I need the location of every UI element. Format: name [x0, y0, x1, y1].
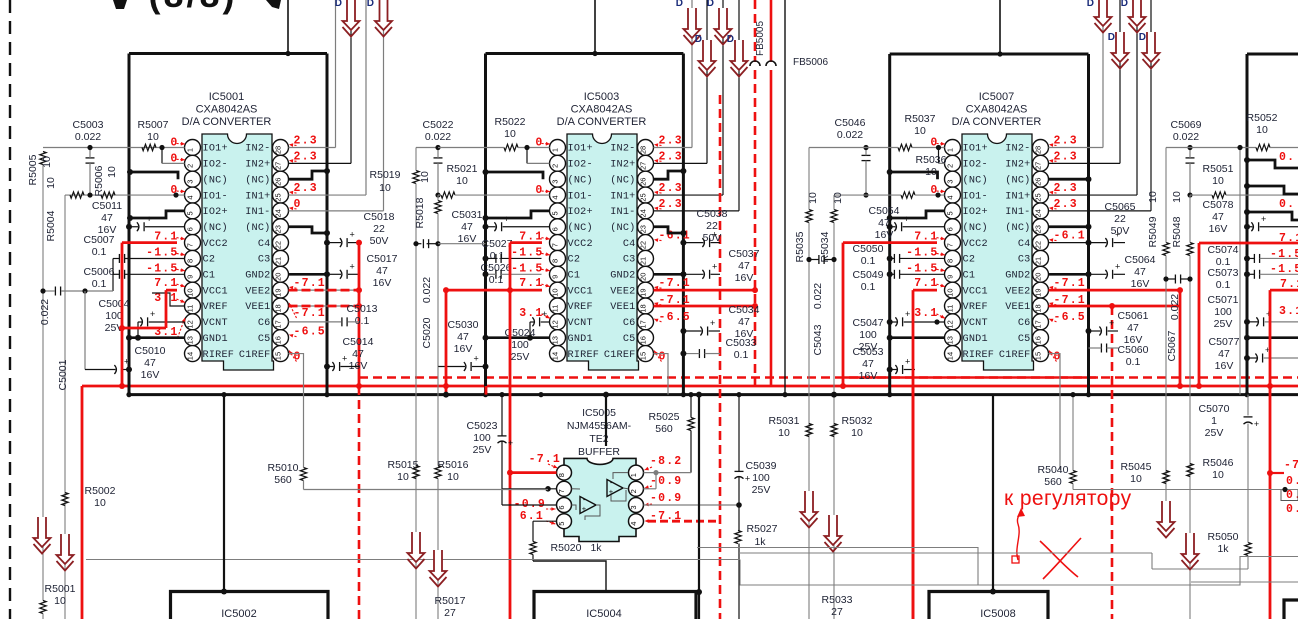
IC5009 shield box top: [1247, 53, 1298, 56]
wire net: [415, 244, 417, 619]
svg-text:NJM4556AM-: NJM4556AM-: [567, 420, 632, 432]
red line FB: [770, 0, 773, 62]
svg-text:C5023: C5023: [467, 420, 498, 432]
svg-text:(NC): (NC): [203, 174, 228, 186]
svg-text:25: 25: [274, 193, 283, 201]
svg-text:C6: C6: [1018, 318, 1031, 329]
svg-text:0.: 0.: [1286, 475, 1298, 488]
svg-text:IO1-: IO1-: [568, 191, 593, 202]
svg-text:17: 17: [1034, 320, 1043, 328]
svg-text:10: 10: [1212, 175, 1224, 187]
IC5007 pin 18: [1033, 298, 1049, 314]
red wire vertical: [445, 290, 448, 394]
off-page arrow: [1158, 501, 1175, 531]
svg-text:-6.5: -6.5: [294, 326, 326, 339]
svg-text:C3: C3: [258, 255, 271, 266]
svg-text:C5064: C5064: [1125, 254, 1156, 266]
svg-text:D: D: [1121, 0, 1128, 9]
svg-text:(NC): (NC): [1005, 174, 1030, 186]
off-page arrow: [1182, 533, 1199, 563]
svg-text:47: 47: [1127, 322, 1139, 334]
svg-text:IN1-: IN1-: [610, 207, 635, 218]
svg-text:R5025: R5025: [649, 411, 680, 423]
wire pin20 GND2 IC5007: [1049, 273, 1089, 276]
svg-text:13: 13: [186, 336, 195, 344]
wire: [1239, 148, 1241, 395]
IC5001 pin 6: [185, 219, 201, 235]
svg-text:100: 100: [473, 432, 491, 444]
svg-text:10: 10: [186, 288, 195, 296]
svg-text:0: 0: [294, 351, 302, 364]
svg-text:IO1+: IO1+: [203, 144, 228, 155]
IC5003 pin 22: [638, 235, 654, 251]
svg-text:28: 28: [639, 146, 648, 154]
svg-text:C5011: C5011: [92, 200, 122, 212]
svg-text:FB5006: FB5006: [793, 57, 828, 68]
wire 4th IC NC steps: [1247, 186, 1298, 194]
red wire 4th IC VCC1: [1269, 290, 1272, 619]
off-page arrow: [408, 532, 425, 562]
svg-text:47: 47: [1134, 266, 1146, 278]
IC IC5008 box: [929, 592, 1048, 619]
wire: [416, 147, 438, 149]
IC5007 shield box left: [888, 54, 891, 395]
svg-text:(NC): (NC): [963, 174, 988, 186]
IC5007 pin 13: [945, 330, 961, 346]
IC5003 pin 3: [550, 171, 566, 187]
svg-text:22: 22: [373, 223, 385, 235]
svg-text:-1.5: -1.5: [1270, 263, 1298, 276]
svg-text:16V: 16V: [1209, 223, 1228, 235]
svg-text:C5054: C5054: [869, 205, 900, 217]
svg-text:R5007: R5007: [138, 119, 169, 131]
svg-text:IO2+: IO2+: [963, 207, 988, 218]
wire: [722, 0, 724, 195]
IC5005 pin 7: [557, 481, 572, 496]
IC5003 pin 11: [550, 298, 566, 314]
junction: [1187, 145, 1192, 150]
svg-text:+: +: [342, 354, 347, 364]
wire pin13 GND1: [129, 336, 185, 339]
off-page arrow D: [343, 0, 360, 30]
title bracket right: [266, 0, 281, 9]
svg-text:16V: 16V: [373, 277, 392, 289]
svg-text:21: 21: [1034, 257, 1043, 265]
svg-text:47: 47: [1212, 211, 1224, 223]
junction: [87, 192, 92, 197]
svg-text:D/A CONVERTER: D/A CONVERTER: [182, 116, 272, 128]
svg-text:R5032: R5032: [842, 415, 873, 427]
IC5007 pin 27: [1033, 155, 1049, 171]
svg-text:100: 100: [105, 310, 123, 322]
wire: [365, 0, 367, 195]
junction: [87, 145, 92, 150]
resistor R5034: [831, 210, 837, 223]
svg-text:10: 10: [551, 288, 560, 296]
svg-text:0.1: 0.1: [1216, 279, 1231, 291]
svg-text:IC5003: IC5003: [584, 91, 619, 103]
wire pin26 NC IC5003: [654, 171, 684, 179]
svg-text:100: 100: [859, 329, 877, 341]
svg-text:25: 25: [1034, 193, 1043, 201]
svg-text:0.022: 0.022: [812, 283, 824, 309]
svg-text:47: 47: [738, 316, 750, 328]
IC5001 pin 8: [185, 250, 201, 266]
wire: [691, 0, 693, 148]
svg-text:C5037: C5037: [729, 248, 760, 260]
svg-text:VCC1: VCC1: [963, 286, 988, 297]
svg-text:16V: 16V: [1131, 278, 1150, 290]
junction: [40, 288, 45, 293]
svg-text:CXA8042AS: CXA8042AS: [571, 104, 633, 116]
svg-text:47: 47: [376, 265, 388, 277]
svg-text:-1.5: -1.5: [146, 262, 178, 275]
IC5007 pin 10: [945, 282, 961, 298]
svg-text:-1.5: -1.5: [906, 262, 938, 275]
svg-text:25V: 25V: [1214, 318, 1233, 330]
svg-text:(NC): (NC): [610, 222, 635, 234]
svg-text:R5048: R5048: [1171, 216, 1183, 247]
svg-text:IO1-: IO1-: [963, 191, 988, 202]
IC5001 pin 19: [273, 282, 289, 298]
svg-text:C4: C4: [623, 239, 636, 250]
svg-text:2.3: 2.3: [659, 198, 683, 211]
svg-text:7.1: 7.1: [154, 277, 178, 290]
wire net: [437, 244, 439, 367]
IC5007 pin 9: [945, 266, 961, 282]
svg-text:R5045: R5045: [1121, 461, 1152, 473]
IC5003 pin 12: [550, 314, 566, 330]
svg-text:21: 21: [274, 257, 283, 265]
svg-text:7.1: 7.1: [914, 277, 938, 290]
svg-text:+: +: [1109, 318, 1114, 328]
svg-text:10: 10: [106, 166, 118, 178]
off-page arrow D: [715, 8, 732, 38]
svg-text:C5065: C5065: [1105, 201, 1136, 213]
svg-text:-7.1: -7.1: [1054, 277, 1086, 290]
red wire vertical VEE IC5007: [1179, 290, 1182, 386]
red dashed line mid: [754, 70, 757, 386]
svg-text:R5036: R5036: [916, 154, 947, 166]
svg-text:C1: C1: [963, 271, 976, 282]
red wire to pin8: [510, 471, 557, 474]
wire: [84, 291, 86, 370]
svg-text:D: D: [1139, 32, 1146, 43]
svg-text:-7.: -7.: [1284, 459, 1298, 472]
red wire VEE2 pin19: [289, 289, 360, 291]
wire: [738, 0, 740, 211]
IC5005 pin 5: [557, 514, 572, 529]
svg-text:12: 12: [551, 320, 560, 328]
svg-text:C5030: C5030: [448, 319, 479, 331]
svg-text:C3: C3: [623, 255, 636, 266]
IC5007 pin 7: [945, 235, 961, 251]
wire: [739, 552, 1152, 554]
black vertical wire: [698, 395, 700, 619]
svg-text:2.3: 2.3: [294, 135, 318, 148]
capacitor C5020: [422, 239, 424, 248]
wire pin15 IC5007: [1049, 354, 1061, 470]
red wire VCC2 IC5003 pin7: [510, 241, 542, 244]
wire: [64, 195, 66, 619]
svg-text:7: 7: [551, 243, 560, 247]
svg-text:C6: C6: [258, 318, 271, 329]
IC IC5004 box: [534, 592, 696, 619]
off-page arrow: [801, 491, 818, 521]
svg-text:C5067: C5067: [1166, 330, 1178, 361]
svg-text:R5016: R5016: [438, 459, 469, 471]
IC5001 pin 27: [273, 155, 289, 171]
svg-text:10: 10: [851, 427, 863, 439]
IC5007 pin 15: [1033, 346, 1049, 362]
svg-text:47: 47: [457, 331, 469, 343]
svg-text:FB5005: FB5005: [755, 21, 766, 56]
wire pin2: [644, 488, 657, 490]
IC5003 pin 4: [550, 187, 566, 203]
capacitor C5067: [1174, 275, 1176, 284]
svg-text:2.3: 2.3: [659, 182, 683, 195]
svg-text:16V: 16V: [454, 343, 473, 355]
IC5003 shield box right: [682, 54, 685, 395]
svg-text:VEE2: VEE2: [610, 286, 635, 297]
svg-text:10: 10: [45, 177, 57, 189]
svg-text:IN2+: IN2+: [610, 160, 635, 171]
svg-text:IO2-: IO2-: [568, 160, 593, 171]
wire 4th IC NC steps: [1247, 212, 1298, 220]
svg-text:7.1: 7.1: [1279, 232, 1298, 245]
svg-text:+: +: [124, 357, 129, 367]
svg-text:IO2-: IO2-: [203, 160, 228, 171]
svg-text:3.1: 3.1: [914, 307, 938, 320]
IC5007 pin 17: [1033, 314, 1049, 330]
svg-text:R5046: R5046: [1203, 457, 1234, 469]
svg-text:D/A CONVERTER: D/A CONVERTER: [557, 116, 647, 128]
svg-text:(8/8): (8/8): [148, 0, 237, 15]
wire pin3 NC: [130, 172, 178, 179]
svg-text:25V: 25V: [1205, 427, 1224, 439]
IC5007 pin 20: [1033, 266, 1049, 282]
resistor R5004: [70, 192, 84, 198]
svg-text:0: 0: [659, 351, 667, 364]
svg-text:C5: C5: [1018, 334, 1031, 345]
svg-text:VCC2: VCC2: [203, 239, 228, 250]
svg-text:27: 27: [1034, 162, 1043, 170]
svg-text:R5027: R5027: [747, 523, 778, 535]
wire pin23 NC IC5003: [654, 227, 684, 233]
svg-text:10: 10: [504, 128, 516, 140]
svg-text:R5052: R5052: [1247, 112, 1278, 124]
wire R5010 to pin7: [304, 489, 549, 491]
svg-text:10: 10: [397, 471, 409, 483]
svg-text:27: 27: [831, 606, 843, 618]
IC5007 pin 26: [1033, 171, 1049, 187]
red wire vertical: [912, 290, 915, 619]
IC5007 pin 22: [1033, 235, 1049, 251]
svg-text:10: 10: [1212, 469, 1224, 481]
svg-text:47: 47: [461, 221, 473, 233]
IC5005 pin 2: [629, 481, 644, 496]
svg-text:24: 24: [274, 209, 283, 217]
svg-text:+: +: [905, 357, 910, 367]
wire: [383, 0, 385, 211]
svg-text:R5005: R5005: [27, 154, 39, 185]
svg-text:100: 100: [511, 339, 529, 351]
red dashed bus: [359, 376, 1298, 379]
IC5007 pin 25: [1033, 187, 1049, 203]
IC5007 pin 3: [945, 171, 961, 187]
wire: [350, 0, 352, 163]
red dashed wire pin4: [648, 520, 720, 523]
svg-text:2: 2: [629, 489, 638, 493]
svg-text:21: 21: [639, 257, 648, 265]
svg-text:к регулятору: к регулятору: [1004, 487, 1132, 510]
svg-text:C3: C3: [1018, 255, 1031, 266]
svg-text:10: 10: [379, 182, 391, 194]
svg-text:C5073: C5073: [1208, 267, 1239, 279]
svg-text:+: +: [1115, 230, 1120, 240]
off-page arrow: [34, 517, 51, 547]
IC5007 shield box right: [1087, 54, 1090, 395]
svg-text:6: 6: [186, 227, 195, 231]
red wire vertical: [121, 243, 124, 386]
resistor R5035: [806, 210, 812, 223]
svg-text:-1.5: -1.5: [1270, 248, 1298, 261]
svg-text:C1REF: C1REF: [239, 350, 271, 361]
svg-text:14: 14: [186, 352, 195, 360]
svg-text:560: 560: [274, 474, 292, 486]
svg-text:(NC): (NC): [568, 222, 593, 234]
svg-text:16: 16: [639, 336, 648, 344]
wire: [1102, 0, 1104, 148]
svg-text:+: +: [904, 214, 909, 224]
IC5005 pin 8: [557, 465, 572, 480]
svg-text:R5033: R5033: [822, 594, 853, 606]
svg-text:16V: 16V: [458, 233, 477, 245]
svg-text:10: 10: [1256, 124, 1268, 136]
svg-text:47: 47: [101, 212, 113, 224]
svg-text:IO1-: IO1-: [203, 191, 228, 202]
off-page arrow: [825, 515, 842, 545]
svg-text:25: 25: [639, 193, 648, 201]
svg-text:2: 2: [186, 164, 195, 168]
svg-text:0.022: 0.022: [837, 129, 863, 141]
svg-text:VREF: VREF: [963, 302, 988, 313]
svg-text:12: 12: [946, 320, 955, 328]
svg-text:IO1+: IO1+: [568, 144, 593, 155]
IC5003 pin 5: [550, 203, 566, 219]
wire: [1166, 147, 1256, 149]
wire pin6: [502, 504, 557, 506]
IC5003 pin 2: [550, 155, 566, 171]
IC5007 shield feed wire: [999, 0, 1001, 54]
svg-text:GND1: GND1: [568, 334, 593, 345]
svg-text:C5020: C5020: [421, 317, 433, 348]
svg-text:D: D: [1087, 0, 1094, 9]
svg-text:2.3: 2.3: [294, 150, 318, 163]
svg-text:0.1: 0.1: [490, 250, 505, 262]
svg-text:C5017: C5017: [367, 253, 398, 265]
red jog: [485, 386, 488, 395]
svg-text:9: 9: [551, 275, 560, 279]
junction: [997, 51, 1002, 56]
junction: [863, 145, 868, 150]
svg-text:1k: 1k: [1217, 543, 1229, 555]
wire pin3 NC IC5007: [890, 172, 938, 179]
IC5007 pin 4: [945, 187, 961, 203]
wire: [809, 147, 866, 149]
wire pin15 C1REF: [289, 354, 304, 462]
off-page arrow D: [684, 8, 701, 38]
wire riser IC5002: [223, 395, 225, 592]
off-page arrow: [57, 534, 74, 564]
IC5001 pin 15: [273, 346, 289, 362]
red wire VEE2 IC5007: [1049, 289, 1181, 292]
IC5007 pin 12: [945, 314, 961, 330]
red wire VEE1 IC5003: [654, 305, 756, 308]
svg-text:8: 8: [186, 259, 195, 263]
svg-text:+: +: [712, 261, 717, 271]
svg-text:10: 10: [1130, 473, 1142, 485]
junction: [435, 145, 440, 150]
svg-text:8: 8: [946, 259, 955, 263]
junction: [285, 51, 290, 56]
IC5003 pin 27: [638, 155, 654, 171]
svg-text:0.: 0.: [1279, 151, 1295, 164]
svg-text:3: 3: [551, 180, 560, 184]
svg-text:R5037: R5037: [905, 113, 936, 125]
svg-text:+: +: [349, 230, 354, 240]
svg-text:+: +: [1115, 261, 1120, 271]
svg-text:10: 10: [419, 171, 431, 183]
svg-text:VCNT: VCNT: [203, 318, 228, 329]
IC5007 pin 16: [1033, 330, 1049, 346]
svg-text:-8.2: -8.2: [650, 455, 682, 468]
red wire VCC1 pin10: [166, 289, 177, 292]
svg-text:C5049: C5049: [853, 269, 884, 281]
red wire VCC2 pin7: [122, 241, 177, 244]
svg-text:15: 15: [639, 352, 648, 360]
red hand arrow: [1017, 511, 1021, 560]
svg-text:GND2: GND2: [1005, 271, 1030, 282]
svg-text:C5050: C5050: [853, 243, 884, 255]
IC5003 pin 6: [550, 219, 566, 235]
wire pin3 NC IC5003: [486, 172, 544, 179]
svg-text:0.022: 0.022: [75, 131, 101, 143]
svg-text:0.022: 0.022: [1169, 294, 1181, 320]
wire pin20 GND2 IC5003: [654, 273, 684, 276]
svg-text:0.1: 0.1: [92, 278, 107, 290]
wire: [1073, 489, 1298, 491]
IC5001 pin 10: [185, 282, 201, 298]
svg-text:IN1+: IN1+: [245, 191, 270, 202]
red wire VCC1 IC5003 pin10: [446, 289, 542, 292]
red dashed vertical left-mid: [719, 95, 722, 619]
svg-text:4: 4: [551, 195, 560, 199]
resistor R5006: [101, 192, 115, 198]
svg-text:R5010: R5010: [268, 462, 299, 474]
svg-text:11: 11: [946, 305, 955, 313]
svg-text:IC5007: IC5007: [979, 91, 1014, 103]
svg-text:C5010: C5010: [135, 345, 166, 357]
wire: [86, 559, 740, 561]
svg-text:(NC): (NC): [1005, 222, 1030, 234]
red wire VCC1 IC5007 pin10: [913, 289, 937, 292]
IC5003 pin 13: [550, 330, 566, 346]
IC5001 pin 28: [273, 140, 289, 156]
IC5001 pin 21: [273, 250, 289, 266]
resistor R5018: [435, 201, 441, 214]
svg-text:3: 3: [186, 180, 195, 184]
